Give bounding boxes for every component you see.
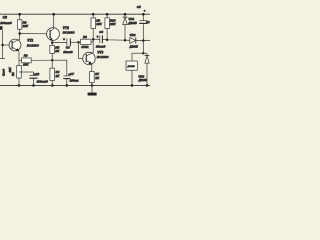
resistor R2 — [8, 66, 22, 86]
diode VD2 — [129, 33, 138, 48]
svg-text:10K: 10K — [23, 63, 29, 67]
svg-text:10K: 10K — [96, 22, 102, 26]
svg-text:R8: R8 — [83, 35, 87, 39]
wire C3 to R8 node — [70, 41, 78, 43]
capacitor C3 — [63, 38, 73, 54]
svg-text:R3: R3 — [24, 54, 28, 58]
node VT3 base junction — [77, 41, 80, 44]
capacitor C7 — [63, 72, 79, 85]
transistor VT3 — [83, 39, 110, 71]
node R10 bottom — [106, 39, 109, 42]
svg-text:VD2: VD2 — [130, 33, 136, 37]
wire C7 branch — [52, 59, 67, 61]
svg-text:22K: 22K — [22, 24, 29, 28]
wire VT1 emitter column — [18, 51, 20, 66]
node VT1 collector junction — [18, 32, 21, 35]
svg-text:22K: 22K — [109, 22, 116, 26]
svg-text:+: + — [97, 35, 99, 39]
transistor VT2 — [47, 14, 76, 42]
svg-text:10мкФ: 10мкФ — [96, 45, 106, 49]
capacitor C2 — [29, 72, 48, 85]
wire bottom ground rail — [0, 84, 150, 86]
resistor R6 — [17, 14, 29, 33]
capacitor C6 label — [0, 15, 12, 25]
svg-text:Д220Б: Д220Б — [138, 78, 147, 82]
svg-text:VD1: VD1 — [128, 17, 134, 21]
wire VT2 base — [20, 33, 47, 35]
wire relay feed — [132, 52, 147, 54]
node relay ground — [131, 84, 134, 87]
resistor R10 — [105, 14, 116, 40]
resistor R4 — [50, 60, 60, 85]
node VD1 top — [124, 13, 127, 16]
resistor R7 — [90, 72, 100, 86]
node VD1 bottom — [124, 39, 127, 42]
svg-text:C6: C6 — [3, 15, 7, 19]
svg-text:VD3: VD3 — [138, 74, 144, 78]
node R2 ground — [18, 84, 21, 87]
svg-text:100мкФ: 100мкФ — [0, 21, 12, 25]
resistor R8 — [80, 35, 93, 49]
svg-text:+: + — [144, 9, 146, 13]
node VT3 collector junction — [92, 38, 95, 41]
node VT2 collector top — [52, 13, 55, 16]
wire VT3 collector column — [92, 29, 94, 41]
node R10 top — [106, 13, 109, 16]
relay K1 — [126, 61, 137, 85]
node C5 top — [142, 13, 145, 16]
svg-text:10мкФ: 10мкФ — [63, 50, 73, 54]
diode VD1 — [123, 14, 137, 40]
svg-text:1м: 1м — [146, 20, 149, 24]
svg-text:реле: реле — [127, 64, 135, 68]
wire VT2 emitter to C3 — [52, 41, 67, 43]
node C2 ground — [32, 84, 35, 87]
capacitor C6 cropped plate — [0, 26, 3, 30]
svg-text:+: + — [63, 38, 65, 42]
diode VD3 — [138, 53, 150, 85]
capacitor C4 — [93, 30, 106, 49]
svg-text:Д220Б: Д220Б — [129, 44, 138, 48]
node R7 ground — [91, 84, 94, 87]
node C7 ground — [66, 84, 69, 87]
svg-text:Вход: Вход — [1, 69, 5, 76]
node VT2 emitter junction — [51, 41, 54, 44]
capacitor C5 — [137, 5, 150, 53]
svg-text:C5: C5 — [137, 5, 141, 9]
resistor R9 — [91, 14, 103, 28]
svg-text:1K: 1K — [56, 74, 61, 78]
transistor VT1 — [9, 34, 40, 52]
svg-text:BC109C: BC109C — [63, 30, 76, 34]
node relay wire junction — [142, 52, 145, 55]
node R9 top — [92, 13, 95, 16]
svg-text:2K: 2K — [54, 49, 60, 53]
wire VT1 base lead — [3, 44, 10, 46]
svg-text:R2: R2 — [11, 72, 15, 76]
ground symbol — [88, 85, 97, 95]
node R5 bottom junction — [51, 59, 54, 62]
resistor R3 — [19, 54, 52, 67]
svg-text:VT2: VT2 — [63, 26, 69, 30]
resistor R5 — [50, 43, 60, 61]
svg-text:1K: 1K — [95, 76, 100, 80]
node R6 top — [18, 13, 21, 16]
svg-text:100мкФ: 100мкФ — [37, 79, 49, 83]
node VD3 ground — [146, 84, 149, 87]
wire top supply rail — [0, 13, 150, 15]
svg-text:+C7: +C7 — [68, 72, 74, 76]
svg-text:100мк: 100мк — [70, 79, 79, 83]
svg-text:+C2: +C2 — [34, 72, 40, 76]
svg-text:Д220Б: Д220Б — [127, 21, 136, 25]
wire left input column — [1, 30, 3, 59]
node R4 ground — [51, 84, 54, 87]
svg-text:BC109C: BC109C — [27, 43, 40, 47]
node VT1 base junction — [1, 44, 4, 47]
node C5 output wire — [142, 39, 145, 42]
wire VT3 base drop — [78, 42, 80, 58]
svg-text:470R: 470R — [80, 45, 89, 49]
svg-text:C4: C4 — [99, 30, 103, 34]
svg-text:VT3: VT3 — [97, 50, 103, 54]
wire C2 branch — [19, 71, 34, 73]
svg-text:VT1: VT1 — [27, 39, 33, 43]
wire output line — [102, 40, 150, 41]
wire input stub — [0, 58, 5, 60]
svg-text:BC108C: BC108C — [97, 55, 110, 59]
